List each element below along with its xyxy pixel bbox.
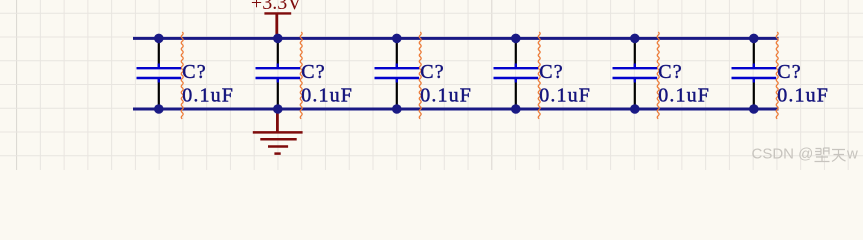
- svg-text:C?: C?: [539, 61, 563, 83]
- svg-text:+3.3V: +3.3V: [251, 0, 302, 14]
- svg-text:w: w: [846, 146, 858, 163]
- svg-text:C?: C?: [777, 61, 801, 83]
- svg-text:0.1uF: 0.1uF: [658, 85, 710, 107]
- svg-text:C?: C?: [420, 61, 444, 83]
- svg-text:0.1uF: 0.1uF: [539, 85, 591, 107]
- svg-text:C?: C?: [658, 61, 682, 83]
- svg-text:0.1uF: 0.1uF: [301, 85, 353, 107]
- svg-text:0.1uF: 0.1uF: [777, 85, 829, 107]
- svg-text:C?: C?: [182, 61, 206, 83]
- svg-text:0.1uF: 0.1uF: [182, 85, 234, 107]
- svg-text:0.1uF: 0.1uF: [420, 85, 472, 107]
- svg-text:CSDN @: CSDN @: [752, 146, 814, 163]
- svg-text:C?: C?: [301, 61, 325, 83]
